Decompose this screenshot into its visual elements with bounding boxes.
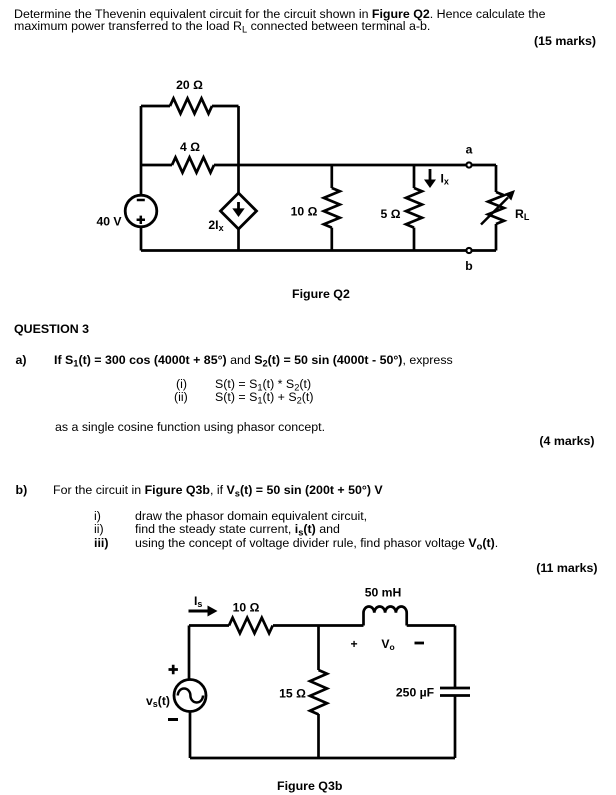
svg-text:2Ix: 2Ix	[208, 218, 223, 233]
wire left vertical lower	[140, 227, 143, 251]
polarity + above source	[169, 665, 178, 674]
inductor L 50mH	[364, 607, 407, 626]
svg-text:40 V: 40 V	[96, 215, 122, 229]
wire top rail right segment	[212, 105, 239, 108]
resistor R 20ohm (top branch)	[170, 98, 212, 113]
wire right branch top corner	[495, 165, 498, 192]
polarity minus mark for Vo	[415, 642, 425, 645]
svg-text:a: a	[466, 143, 473, 157]
svg-text:10 Ω: 10 Ω	[291, 205, 318, 219]
part a) text	[16, 353, 27, 367]
capacitor C 250uF top plate	[440, 687, 470, 690]
wire 10ohm branch upper	[330, 165, 333, 188]
resistor R 10ohm zigzag	[324, 188, 340, 228]
variable resistor RL zigzag	[488, 192, 504, 224]
svg-text:250 µF: 250 µF	[396, 685, 434, 699]
marks (11 marks)	[536, 561, 597, 575]
svg-text:5 Ω: 5 Ω	[381, 207, 401, 221]
part b) text	[16, 483, 28, 497]
wire left vertical lower	[189, 712, 192, 759]
current arrow Ix shaft	[429, 169, 432, 181]
wire 15ohm branch upper	[317, 626, 320, 671]
wire 5ohm branch upper	[413, 165, 416, 188]
wire top rail right segment	[407, 624, 455, 627]
svg-text:RL: RL	[515, 207, 530, 222]
question intro paragraph	[14, 7, 545, 21]
ac voltage source Vs sine wave	[178, 689, 203, 703]
caption Figure Q2	[292, 287, 350, 301]
wire top rail middle segment	[273, 624, 364, 627]
svg-text:15 Ω: 15 Ω	[279, 687, 306, 701]
svg-text:50 mH: 50 mH	[365, 586, 402, 600]
wire right branch lower	[495, 224, 498, 251]
variable resistor RL diagonal arrowhead	[505, 190, 515, 201]
current arrow Ix arrowhead	[424, 180, 436, 189]
dependent current source 2Ix arrow shaft	[237, 202, 240, 210]
terminal node b (open circle)	[466, 248, 471, 253]
resistor R 10ohm (top)	[229, 618, 273, 634]
dependent current source 2Ix diamond outline	[221, 193, 257, 229]
heading QUESTION 3	[14, 322, 89, 336]
wire right vertical upper	[454, 626, 457, 689]
resistor R 5ohm zigzag	[406, 188, 422, 228]
wire left vertical upper	[140, 106, 143, 196]
wire middle vertical upper	[237, 106, 240, 193]
dependent current source 2Ix arrowhead	[232, 208, 244, 217]
wire bottom rail	[190, 757, 455, 760]
wire middle rail right segment	[214, 164, 496, 167]
svg-text:4 Ω: 4 Ω	[180, 140, 200, 154]
wire right vertical lower	[454, 696, 457, 759]
svg-text:Ix: Ix	[441, 172, 449, 187]
svg-text:Is: Is	[194, 594, 202, 609]
terminal node a (open circle)	[466, 162, 471, 167]
variable resistor RL diagonal arrow shaft	[481, 198, 508, 225]
svg-text:b: b	[465, 259, 472, 273]
current arrow Is arrowhead	[208, 606, 218, 617]
marks (4 marks)	[539, 434, 594, 448]
resistor R 15ohm zigzag	[310, 670, 327, 714]
wire top rail left segment	[189, 624, 229, 627]
voltage source V1 plus polarity mark	[137, 216, 145, 224]
capacitor C 250uF bottom plate	[440, 694, 470, 697]
polarity - below source	[168, 718, 178, 721]
wire top rail left segment	[141, 105, 170, 108]
wire left vertical upper	[188, 626, 191, 680]
marks (15 marks)	[534, 34, 596, 48]
svg-text:10 Ω: 10 Ω	[233, 601, 260, 615]
svg-text:20 Ω: 20 Ω	[176, 78, 203, 92]
wire bottom rail	[141, 249, 496, 252]
wire 5ohm branch lower	[413, 228, 416, 251]
wire middle vertical lower	[237, 229, 240, 251]
voltage source V1 40V circle	[125, 195, 157, 227]
resistor R 4ohm (middle branch)	[172, 157, 214, 172]
svg-text:Vo: Vo	[381, 637, 394, 652]
voltage source V1 minus polarity mark	[137, 199, 145, 202]
caption Figure Q3b	[277, 779, 342, 793]
wire 15ohm branch lower	[317, 714, 320, 758]
svg-text:+: +	[350, 637, 357, 651]
current arrow Is shaft	[189, 610, 210, 613]
ac voltage source Vs circle	[174, 680, 206, 712]
svg-text:vs(t): vs(t)	[146, 694, 170, 709]
wire middle rail left segment	[141, 164, 172, 167]
wire 10ohm branch lower	[330, 228, 333, 251]
